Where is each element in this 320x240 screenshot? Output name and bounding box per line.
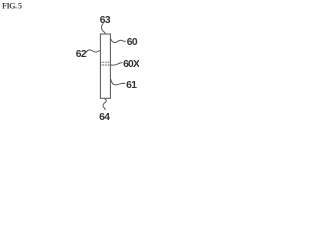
svg-text:61: 61: [126, 80, 137, 91]
leader from bar bottom to 64: [103, 99, 106, 110]
svg-text:63: 63: [100, 15, 111, 26]
leader from bar right edge to 61: [111, 79, 126, 85]
svg-text:64: 64: [99, 112, 110, 120]
leader from 63 to bar top: [102, 23, 106, 34]
svg-text:60X: 60X: [123, 59, 139, 70]
leader from bar right edge to 60: [111, 39, 126, 43]
band 60X lower dashed line: [100, 64, 111, 66]
svg-text:60: 60: [127, 37, 138, 48]
svg-text:62: 62: [76, 49, 87, 60]
svg-text:FIG. 5: FIG. 5: [2, 2, 22, 11]
leader from band to 60X: [111, 63, 123, 66]
bar 60 (vertical rectangle body): [100, 34, 110, 98]
leader from 62 to bar left edge: [86, 50, 100, 53]
band 60X upper dashed line: [100, 61, 111, 63]
